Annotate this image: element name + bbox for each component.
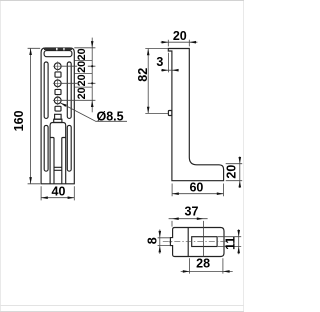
dimension 20 top line xyxy=(161,41,198,43)
svg-text:20: 20 xyxy=(76,74,88,86)
lower right side slot xyxy=(67,125,71,171)
bottom view body outline with left tab notch xyxy=(170,228,224,257)
leader line for hole diameter xyxy=(60,103,127,121)
dimension 3 extension line xyxy=(167,53,169,73)
dimension 160 line xyxy=(30,48,32,184)
hole 1 crosshair xyxy=(53,61,63,71)
dimension 3 line xyxy=(161,69,177,71)
internal edge line xyxy=(187,228,189,257)
svg-text:20: 20 xyxy=(225,165,239,179)
svg-text:82: 82 xyxy=(136,68,150,82)
chain label 20 a xyxy=(76,48,88,60)
dimension 82 line xyxy=(147,49,149,114)
top edge line xyxy=(0,0,244,2)
lower left side slot xyxy=(44,125,48,171)
dimension 60 extension lines xyxy=(172,184,223,197)
step rect above tongue xyxy=(54,119,62,122)
inner slot xyxy=(192,237,217,247)
chain dimension line xyxy=(91,38,93,113)
svg-text:8: 8 xyxy=(146,237,160,244)
hook bump on left edge xyxy=(168,111,172,116)
square hole 2 xyxy=(55,89,61,94)
extension line from hole 2 xyxy=(61,82,95,84)
svg-text:20: 20 xyxy=(76,48,88,60)
svg-text:37: 37 xyxy=(185,204,199,218)
top edge thick band xyxy=(44,48,72,51)
svg-text:60: 60 xyxy=(189,180,203,194)
dimension 20 right line xyxy=(239,156,241,188)
center line xyxy=(163,241,228,243)
extension line from hole 1 xyxy=(61,65,95,67)
dimension 11 extension lines xyxy=(218,237,241,247)
svg-text:28: 28 xyxy=(196,257,210,271)
dimension 82 arrows xyxy=(147,49,150,114)
dimension 20 right arrows xyxy=(239,157,242,187)
square hole 3 xyxy=(55,106,61,111)
hole 2 crosshair xyxy=(53,79,63,89)
dimension 28 arrows xyxy=(183,270,230,273)
hole 2 circle xyxy=(54,80,61,87)
dimension 160 extension lines xyxy=(28,48,41,184)
square hole 1 xyxy=(55,72,61,77)
bottom edge line xyxy=(0,311,244,312)
dimension 37 arrows xyxy=(172,217,204,220)
L profile outline xyxy=(168,49,223,181)
top edge notch gap left xyxy=(56,48,57,50)
upper left side slot xyxy=(44,62,48,118)
hole 3 circle xyxy=(54,97,61,104)
dimension 8 arrows xyxy=(159,231,162,253)
svg-text:20: 20 xyxy=(173,29,187,43)
hole 1 circle xyxy=(54,63,61,70)
faint image border sides xyxy=(1,1,244,312)
front view outline xyxy=(41,48,74,184)
leader arrowhead xyxy=(60,103,66,107)
extension line from hole 3 xyxy=(61,99,95,101)
centerline crossing dot on tab xyxy=(169,241,171,243)
svg-text:20: 20 xyxy=(76,61,88,73)
svg-text:40: 40 xyxy=(52,185,66,199)
dimension 20 right extension lines xyxy=(226,164,243,181)
chain top arrow xyxy=(91,41,94,48)
dimension 40 extension lines xyxy=(41,186,74,200)
chain bottom arrow xyxy=(91,100,94,107)
tongue channel shoulders xyxy=(50,138,66,184)
top edge notch gap right xyxy=(63,48,64,50)
dimension 11 arrows xyxy=(237,230,240,253)
dimension 8 extension lines xyxy=(158,238,171,246)
dimension 20 top extension lines xyxy=(168,40,189,47)
dimension 8 line xyxy=(159,230,161,254)
chain tick dots xyxy=(91,65,93,67)
chain label 20 c xyxy=(76,74,88,86)
svg-text:11: 11 xyxy=(224,237,238,250)
dimension 160 arrows xyxy=(29,48,32,184)
chain label separators xyxy=(75,61,93,88)
dimension 37 line xyxy=(169,218,208,220)
dimension 11 line xyxy=(238,229,240,254)
svg-text:Ø8.5: Ø8.5 xyxy=(97,109,124,123)
page background xyxy=(0,0,244,312)
dimension 37 extension lines xyxy=(172,221,204,257)
dimension 28 line xyxy=(181,270,233,272)
svg-text:3: 3 xyxy=(156,55,163,69)
dimension 60 line xyxy=(172,193,223,195)
chain label 20 b xyxy=(76,61,88,73)
svg-text:20: 20 xyxy=(76,87,88,99)
tongue channel rungs xyxy=(54,167,62,170)
bottom separator rule xyxy=(0,305,244,307)
tongue outline xyxy=(50,123,66,184)
dimension 3 arrows xyxy=(162,69,179,72)
dimension 20 top arrows xyxy=(162,41,196,44)
extension line from top edge to chain xyxy=(74,47,95,49)
cap rect above tongue xyxy=(55,114,62,119)
hole 3 crosshair xyxy=(53,96,63,106)
dimension 40 line xyxy=(41,197,74,199)
dimension 82 extension lines xyxy=(145,49,168,114)
dimension 40 arrows xyxy=(41,196,74,199)
svg-text:160: 160 xyxy=(12,110,26,131)
top slot xyxy=(44,51,72,57)
dimension 60 arrows xyxy=(172,192,223,195)
chain label 20 d xyxy=(76,87,88,99)
upper right side slot xyxy=(67,62,71,118)
dimension 28 extension lines xyxy=(190,258,223,273)
